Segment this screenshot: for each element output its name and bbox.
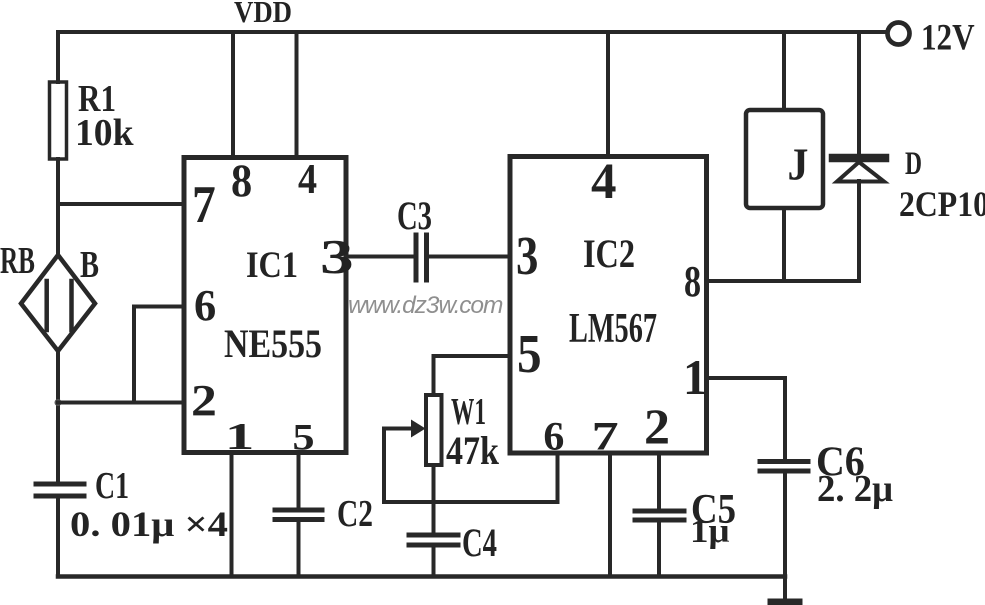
wire IC1 pin6 loop [134, 307, 184, 403]
wire C4 to bottom rail [432, 545, 436, 575]
svg-text:2: 2 [191, 377, 217, 426]
svg-text:D: D [905, 145, 922, 182]
potentiometer W1 body [426, 395, 442, 465]
wire IC1 pin3 to C3 [346, 255, 416, 259]
svg-text:2CP10: 2CP10 [899, 185, 985, 224]
wire C6 to ground [783, 471, 787, 601]
svg-text:IC2: IC2 [583, 232, 635, 276]
wire J bottom to pin8 wire [782, 208, 786, 281]
svg-text:1μ: 1μ [690, 511, 730, 549]
capacitor C6 [760, 459, 808, 464]
svg-text:C4: C4 [462, 520, 497, 565]
svg-text:C2: C2 [337, 494, 373, 535]
svg-text:RB: RB [0, 239, 35, 281]
svg-text:3: 3 [516, 225, 538, 286]
svg-text:J: J [788, 140, 809, 190]
capacitor C1 [36, 482, 84, 487]
capacitor C3 [414, 235, 419, 280]
wire IC1 pin2 horizontal [58, 401, 184, 405]
svg-text:12V: 12V [921, 17, 975, 58]
wire C3 to IC2 pin3 [427, 255, 511, 259]
svg-text:C3: C3 [397, 193, 432, 238]
svg-text:6: 6 [194, 281, 216, 330]
svg-text:NE555: NE555 [224, 322, 322, 366]
capacitor C2 [275, 508, 322, 513]
wire VDD top rail [58, 30, 886, 34]
wire sensor bottom to C1 [56, 352, 60, 484]
wire IC1 pin1 to bottom rail [230, 453, 234, 576]
potentiometer W1 wiper arrow [384, 427, 412, 431]
wire bottom rail [58, 574, 785, 579]
wire IC2 pin8 to diode [706, 279, 859, 283]
svg-text:4: 4 [591, 153, 616, 209]
svg-text:LM567: LM567 [569, 304, 657, 351]
node junction pin2 [55, 399, 62, 406]
svg-text:1: 1 [225, 415, 254, 457]
svg-text:W1: W1 [451, 390, 486, 432]
diode D 2CP10 [857, 32, 861, 154]
wire IC1 pin4 to rail [295, 32, 299, 158]
svg-text:6: 6 [543, 413, 564, 458]
svg-text:7: 7 [592, 415, 619, 459]
wire IC2 pin4 to rail [606, 32, 610, 157]
relay J box [746, 110, 823, 208]
svg-text:C1: C1 [95, 465, 129, 507]
resistor R1 [50, 82, 67, 159]
sensor B (piezo) diamond RB [21, 255, 95, 351]
svg-text:2. 2μ: 2. 2μ [817, 468, 893, 510]
terminal 12V [888, 23, 910, 45]
capacitor C5 [635, 509, 684, 514]
svg-text:www.dz3w.com: www.dz3w.com [348, 292, 503, 319]
wire wiper loop to IC2 pin6 [384, 429, 558, 503]
svg-text:4: 4 [298, 155, 317, 202]
wire IC2 pin7 to bottom rail [608, 453, 612, 575]
wire C5 to bottom rail [657, 520, 661, 575]
IC U2 IC2 LM567 box [510, 157, 707, 454]
svg-text:B: B [80, 244, 99, 286]
ground [771, 599, 799, 605]
wire IC1 pin7 horizontal [58, 202, 184, 206]
wire C1 bottom to bottom rail [56, 496, 60, 575]
IC U1 IC1 NE555 box [184, 158, 346, 453]
svg-text:5: 5 [292, 417, 314, 458]
wire J top to rail [782, 32, 786, 110]
wire C2 to bottom rail [297, 520, 301, 576]
svg-text:IC1: IC1 [246, 244, 298, 286]
wire IC2 pin2 to C5 [657, 453, 661, 511]
wire IC1 pin5 to C2 [297, 453, 301, 511]
svg-text:1: 1 [683, 349, 707, 405]
svg-text:10k: 10k [75, 112, 134, 154]
svg-text:VDD: VDD [234, 0, 292, 29]
svg-text:8: 8 [231, 154, 252, 206]
svg-text:0. 01μ ×4: 0. 01μ ×4 [70, 505, 228, 544]
wire IC2 pin1 to C6 [706, 378, 785, 461]
svg-text:5: 5 [517, 325, 542, 385]
svg-text:2: 2 [644, 399, 670, 455]
svg-text:47k: 47k [446, 430, 499, 474]
wire left vertical from rail to R1 top [56, 32, 60, 82]
wire IC2 pin5 to W1 top [434, 356, 511, 395]
wire W1 bottom to C4 [432, 465, 436, 535]
wire R1 bottom to sensor top [56, 159, 60, 255]
svg-text:3: 3 [320, 230, 354, 284]
wire IC1 pin8 to rail [231, 32, 235, 158]
capacitor C4 [409, 533, 458, 538]
svg-text:7: 7 [192, 175, 216, 234]
svg-text:8: 8 [684, 257, 701, 306]
